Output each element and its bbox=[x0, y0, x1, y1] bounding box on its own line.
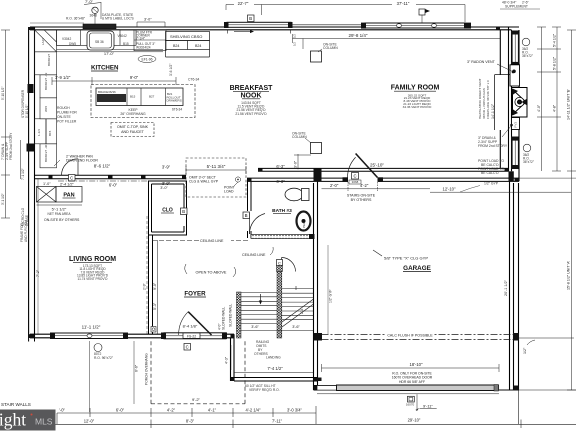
svg-text:3068: 3068 bbox=[352, 180, 359, 184]
svg-text:B15: B15 bbox=[123, 42, 129, 46]
svg-text:VERIFY REQ'D R.O.: VERIFY REQ'D R.O. bbox=[249, 388, 280, 392]
svg-text:B: B bbox=[245, 213, 248, 218]
svg-text:3648: 3648 bbox=[90, 13, 98, 17]
svg-text:5/8" TYPE "X" CLG GYP: 5/8" TYPE "X" CLG GYP bbox=[384, 256, 428, 261]
svg-text:8'-6 1/2": 8'-6 1/2" bbox=[94, 164, 111, 169]
cabinet tiny labels bbox=[62, 31, 155, 50]
svg-text:PLUMB FOR: PLUMB FOR bbox=[57, 111, 77, 115]
svg-text:18'-10": 18'-10" bbox=[410, 362, 424, 367]
svg-text:4'-3": 4'-3" bbox=[225, 356, 229, 364]
window label below bbox=[94, 344, 102, 352]
rough plumb note bbox=[57, 106, 77, 124]
dims under family wall bbox=[322, 188, 431, 190]
counter edge bbox=[57, 49, 164, 51]
svg-text:R.O. 96"x72": R.O. 96"x72" bbox=[94, 356, 114, 360]
garage west wall bbox=[313, 183, 315, 390]
right exterior wall (family room) bbox=[508, 27, 510, 171]
svg-text:21.56 VENT PROV'D: 21.56 VENT PROV'D bbox=[235, 112, 267, 116]
svg-text:EF1-96: EF1-96 bbox=[141, 58, 152, 62]
garage right wall bbox=[509, 180, 511, 391]
svg-text:FV3: FV3 bbox=[514, 122, 518, 128]
window W3 family room bbox=[365, 23, 465, 28]
svg-text:CEILING LINE: CEILING LINE bbox=[242, 253, 266, 257]
svg-text:OPEN TO ABOVE: OPEN TO ABOVE bbox=[196, 271, 227, 275]
16070 label bbox=[408, 396, 415, 402]
arrow under nook window bbox=[234, 31, 250, 33]
kitchen south wall bbox=[35, 174, 187, 176]
under stair door arc bbox=[282, 258, 296, 272]
svg-text:5'-11 3/4": 5'-11 3/4" bbox=[207, 164, 226, 169]
svg-text:BREAKFAST: BREAKFAST bbox=[230, 85, 274, 92]
svg-text:22'-7": 22'-7" bbox=[238, 1, 249, 6]
svg-text:2'-4": 2'-4" bbox=[300, 307, 304, 314]
svg-text:6'-3": 6'-3" bbox=[276, 164, 285, 169]
shelving unit bbox=[166, 32, 210, 58]
svg-text:29'-10": 29'-10" bbox=[408, 417, 421, 422]
svg-text:BDWF27: BDWF27 bbox=[47, 54, 51, 67]
svg-text:9'-0": 9'-0" bbox=[130, 75, 139, 80]
corner blocks bbox=[29, 27, 519, 390]
svg-text:C: C bbox=[278, 260, 281, 265]
heatilator rotated text bbox=[478, 79, 495, 119]
svg-text:B15: B15 bbox=[130, 95, 136, 99]
svg-text:7'-1/4": 7'-1/4" bbox=[136, 37, 145, 41]
svg-text:20'-1 1/2": 20'-1 1/2" bbox=[504, 279, 508, 296]
right wall window lower bbox=[512, 140, 519, 166]
svg-text:LOAD: LOAD bbox=[224, 190, 234, 194]
svg-text:3'-0": 3'-0" bbox=[160, 186, 168, 190]
svg-text:36"x72": 36"x72" bbox=[523, 160, 534, 164]
wall blocks on mid walls bbox=[49, 168, 520, 182]
svg-text:NET PAN AREA: NET PAN AREA bbox=[48, 212, 72, 216]
top right corner texts bbox=[502, 0, 530, 8]
kitchen top dim 3'-0 left bbox=[30, 22, 84, 24]
svg-text:BRAKE36/36: BRAKE36/36 bbox=[98, 90, 116, 94]
svg-text:FAMILY ROOM: FAMILY ROOM bbox=[391, 85, 440, 92]
svg-text:9'-2": 9'-2" bbox=[192, 397, 201, 402]
family room sliding door arc bbox=[348, 154, 378, 178]
svg-text:1-1/4: 1-1/4 bbox=[37, 129, 41, 136]
17'-0 dim bbox=[57, 51, 164, 53]
svg-text:PAN: PAN bbox=[63, 193, 74, 199]
svg-text:COLUMN: COLUMN bbox=[292, 135, 307, 139]
svg-text:C: C bbox=[353, 174, 356, 179]
svg-text:4'-0": 4'-0" bbox=[537, 104, 541, 112]
stair wall A hatched bbox=[237, 292, 242, 338]
svg-text:9'-0": 9'-0" bbox=[153, 282, 157, 290]
svg-text:1/2" GYP: 1/2" GYP bbox=[329, 289, 333, 303]
extension line below window bbox=[89, 341, 91, 412]
svg-text:FOYER: FOYER bbox=[184, 291, 206, 298]
right side bottom lines bbox=[499, 389, 576, 391]
svg-text:3" RADON VENT: 3" RADON VENT bbox=[467, 60, 496, 64]
window W2 breakfast nook bbox=[227, 22, 291, 27]
svg-text:2'-4 1/2": 2'-4 1/2" bbox=[60, 183, 75, 187]
point load notes bbox=[478, 159, 504, 175]
svg-text:BDWF27 -33: BDWF27 -33 bbox=[44, 72, 48, 90]
landing east wall bbox=[230, 338, 232, 381]
bath sink bbox=[297, 212, 311, 231]
front door assembly bbox=[164, 333, 226, 339]
svg-text:8'-3": 8'-3" bbox=[186, 418, 195, 423]
svg-text:PORCH OVERHANG: PORCH OVERHANG bbox=[145, 353, 149, 385]
kitchen island bbox=[91, 85, 195, 118]
svg-text:1'-0": 1'-0" bbox=[43, 182, 51, 186]
svg-text:3'-6": 3'-6" bbox=[251, 325, 259, 329]
radon vent chase bbox=[495, 65, 520, 130]
svg-text:7'-4 1/2": 7'-4 1/2" bbox=[267, 366, 283, 371]
fireplace U1 bbox=[512, 88, 528, 118]
svg-text:11'-1 1/2": 11'-1 1/2" bbox=[82, 325, 101, 330]
left exterior wall bbox=[28, 27, 30, 338]
svg-text:4'-2": 4'-2" bbox=[167, 407, 176, 412]
appliance block on left wall bbox=[27, 144, 35, 152]
svg-text:3'-9 1/2": 3'-9 1/2" bbox=[55, 75, 71, 80]
svg-text:3'-6": 3'-6" bbox=[292, 325, 300, 329]
svg-text:26" OVERHANG: 26" OVERHANG bbox=[120, 112, 146, 116]
svg-text:LANDING: LANDING bbox=[266, 356, 281, 360]
svg-text:ON-SITE BY OTHERS: ON-SITE BY OTHERS bbox=[44, 218, 80, 222]
calc flush lines bbox=[322, 334, 515, 336]
svg-text:25'-10": 25'-10" bbox=[370, 163, 384, 168]
omit c-top note bbox=[111, 123, 154, 137]
svg-text:B: B bbox=[182, 209, 185, 214]
down arrow bbox=[260, 294, 262, 303]
svg-text:'-0": '-0" bbox=[59, 407, 65, 412]
svg-text:FIREPLACE 36"x36 7/8" x 0: FIREPLACE 36"x36 7/8" x 0 bbox=[486, 80, 490, 119]
svg-text:OMIT C-TOP, SINK: OMIT C-TOP, SINK bbox=[117, 125, 149, 129]
svg-text:3'-1 1/2": 3'-1 1/2" bbox=[1, 193, 5, 205]
landing south wall bbox=[231, 377, 318, 379]
window label right lower bbox=[523, 144, 531, 152]
bath west wall bbox=[247, 178, 249, 211]
doorbell box bbox=[151, 327, 156, 333]
svg-text:SLOPED WALL: SLOPED WALL bbox=[222, 307, 226, 330]
svg-text:12'-10": 12'-10" bbox=[443, 186, 457, 191]
svg-text:FROM 2nd STORY: FROM 2nd STORY bbox=[9, 132, 13, 160]
top exterior wall bbox=[30, 26, 519, 28]
svg-text:B27: B27 bbox=[149, 95, 155, 99]
svg-text:3'-6 1/2": 3'-6 1/2" bbox=[169, 63, 173, 76]
svg-text:4'-2 1/4": 4'-2 1/4" bbox=[246, 407, 262, 412]
svg-text:7'-1 1/2": 7'-1 1/2" bbox=[21, 168, 25, 180]
foyer left dim hatch bbox=[157, 240, 159, 334]
svg-text:6'-3": 6'-3" bbox=[276, 179, 285, 184]
toilet bbox=[285, 188, 303, 201]
svg-text:LAZY: LAZY bbox=[41, 37, 45, 45]
living room east wall bbox=[148, 235, 150, 334]
svg-text:POT FILLER: POT FILLER bbox=[57, 120, 77, 124]
front wall living/foyer bbox=[30, 333, 234, 335]
door label C bbox=[69, 175, 76, 182]
svg-text:KITCHEN: KITCHEN bbox=[91, 65, 119, 72]
svg-text:3'-0": 3'-0" bbox=[294, 160, 298, 168]
svg-text:CEILING LINE: CEILING LINE bbox=[200, 239, 224, 243]
svg-text:SLOPED WALL: SLOPED WALL bbox=[229, 304, 233, 327]
svg-text:17'-0": 17'-0" bbox=[104, 51, 115, 56]
svg-text:DW5: DW5 bbox=[69, 42, 76, 46]
left cabinet column bbox=[35, 30, 57, 52]
window label right upper bbox=[522, 38, 530, 46]
svg-text:C: C bbox=[70, 176, 73, 181]
on-site column 1 bbox=[311, 51, 322, 62]
svg-text:CT6-34: CT6-34 bbox=[188, 78, 199, 82]
svg-text:12'-0": 12'-0" bbox=[84, 418, 95, 423]
window W1 kitchen sink window bbox=[83, 24, 116, 29]
treads left flight bbox=[241, 292, 277, 323]
bath south wall hatched bbox=[251, 235, 311, 239]
svg-text:4'-1": 4'-1" bbox=[208, 407, 217, 412]
svg-text:3'-9": 3'-9" bbox=[162, 165, 171, 170]
svg-text:BY OTHERS: BY OTHERS bbox=[351, 198, 372, 202]
lower chase bbox=[512, 118, 520, 130]
svg-text:ON-SITE: ON-SITE bbox=[57, 115, 71, 119]
svg-text:right: right bbox=[0, 410, 26, 430]
svg-text:36"x72": 36"x72" bbox=[522, 54, 533, 58]
svg-text:V3042: V3042 bbox=[118, 34, 127, 38]
treads right flight bbox=[282, 289, 314, 327]
garage front wall line bbox=[314, 385, 500, 387]
svg-text:GARAGE: GARAGE bbox=[403, 265, 431, 272]
svg-text:B24: B24 bbox=[173, 44, 179, 48]
family room south wall bbox=[258, 167, 509, 169]
svg-text:11.74 VENT PROV'D: 11.74 VENT PROV'D bbox=[78, 277, 109, 281]
svg-text:FS-22: FS-22 bbox=[187, 334, 196, 338]
svg-text:1/2: 1/2 bbox=[293, 42, 297, 46]
svg-text:CALC FLUSH IF POSSIBLE: CALC FLUSH IF POSSIBLE bbox=[387, 333, 433, 337]
svg-text:5'-10 1/2": 5'-10 1/2" bbox=[25, 105, 29, 118]
svg-text:6'-0": 6'-0" bbox=[116, 407, 125, 412]
clo walls bbox=[149, 181, 187, 235]
svg-text:MLS: MLS bbox=[35, 417, 53, 427]
door leaf bbox=[188, 312, 211, 335]
svg-text:3'-0": 3'-0" bbox=[144, 18, 152, 22]
svg-text:15'-8 1/2" UNIT 'A': 15'-8 1/2" UNIT 'A' bbox=[567, 260, 571, 290]
svg-text:BE CALC'D: BE CALC'D bbox=[481, 171, 499, 175]
foyer left dashed dim line bbox=[146, 216, 148, 334]
svg-text:ROUGH: ROUGH bbox=[57, 106, 70, 110]
svg-text:B: B bbox=[249, 16, 252, 21]
svg-text:W15: W15 bbox=[44, 106, 48, 113]
svg-text:W3024/24: W3024/24 bbox=[136, 46, 151, 50]
svg-text:9'-11": 9'-11" bbox=[423, 404, 433, 409]
svg-text:1/2" GYP: 1/2" GYP bbox=[484, 182, 499, 186]
svg-text:29'-8 1/4": 29'-8 1/4" bbox=[349, 33, 368, 38]
garage/bath north wall bbox=[247, 177, 348, 179]
living room window bbox=[54, 333, 125, 339]
upper run cabinets bbox=[57, 30, 81, 46]
svg-text:1/2": 1/2" bbox=[523, 347, 527, 354]
svg-text:B24: B24 bbox=[195, 44, 201, 48]
22'-7 / 37'-11 dim bbox=[226, 4, 465, 6]
svg-text:5'-8 1/2": 5'-8 1/2" bbox=[553, 56, 557, 70]
svg-text:SHELVING CBSO: SHELVING CBSO bbox=[170, 34, 202, 39]
svg-text:DRAIN 2ND FLOOR: DRAIN 2ND FLOOR bbox=[66, 159, 98, 163]
svg-text:16070: 16070 bbox=[406, 403, 415, 407]
right wall window upper bbox=[512, 34, 519, 63]
svg-text:STAIR WALLS: STAIR WALLS bbox=[1, 402, 31, 407]
svg-text:COLUMN: COLUMN bbox=[323, 46, 338, 50]
svg-text:6'-0": 6'-0" bbox=[109, 183, 118, 188]
svg-text:1/2: 1/2 bbox=[293, 34, 297, 38]
svg-text:CHASE: CHASE bbox=[25, 215, 29, 226]
landing notes bbox=[254, 340, 281, 360]
1/2 gyp rotated near garage west bbox=[327, 245, 329, 334]
flag symbol bbox=[419, 9, 425, 15]
stair wall B hatched bbox=[277, 272, 282, 339]
svg-text:3'-0 3/4": 3'-0 3/4" bbox=[287, 407, 303, 412]
porch width dim 6'-6" bbox=[133, 341, 135, 404]
svg-text:5'-10 1/2": 5'-10 1/2" bbox=[1, 87, 5, 100]
svg-text:14'-1 1/2": 14'-1 1/2" bbox=[491, 103, 495, 119]
svg-text:V3042: V3042 bbox=[62, 37, 71, 41]
svg-text:BDWF27 -30: BDWF27 -30 bbox=[44, 144, 48, 162]
svg-text:14'-11 1/2" UNIT 'B': 14'-11 1/2" UNIT 'B' bbox=[567, 89, 571, 120]
svg-text:SUPPLEMENT: SUPPLEMENT bbox=[505, 4, 528, 8]
dim 29'-8 1/4 under top wall bbox=[293, 38, 501, 40]
svg-text:3'-9": 3'-9" bbox=[162, 181, 171, 186]
svg-text:2'-9": 2'-9" bbox=[143, 282, 147, 290]
kitchen door arc at pantry hall bbox=[62, 159, 79, 176]
svg-text:FROM 2nd STORY: FROM 2nd STORY bbox=[478, 144, 508, 148]
svg-text:7'-11": 7'-11" bbox=[272, 418, 283, 423]
svg-text:C: C bbox=[186, 345, 189, 350]
pan bbox=[37, 187, 83, 203]
svg-text:AND FAUCET: AND FAUCET bbox=[121, 130, 145, 134]
svg-text:2'-0": 2'-0" bbox=[330, 183, 339, 188]
svg-text:R.O. 36"x48": R.O. 36"x48" bbox=[66, 16, 86, 20]
svg-text:6'-6": 6'-6" bbox=[135, 364, 139, 372]
svg-text:34.36 VENT PROVD: 34.36 VENT PROVD bbox=[403, 105, 432, 109]
svg-text:5'-4 1/2": 5'-4 1/2" bbox=[553, 33, 557, 47]
svg-text:6T6-34: 6T6-34 bbox=[172, 108, 182, 112]
svg-text:5'-3": 5'-3" bbox=[153, 302, 157, 310]
drain note bbox=[478, 136, 508, 148]
bath door arc bbox=[249, 213, 265, 234]
svg-text:4'-8": 4'-8" bbox=[553, 104, 557, 112]
svg-text:CLO: CLO bbox=[162, 208, 173, 214]
svg-text:8'-4 1/8": 8'-4 1/8" bbox=[183, 324, 198, 329]
kitchen sink bbox=[87, 31, 114, 50]
on-site column 2 bbox=[311, 143, 322, 154]
svg-text:PED: PED bbox=[302, 221, 306, 228]
svg-text:B15: B15 bbox=[48, 130, 52, 136]
svg-text:HDR 66 5/8" AFF: HDR 66 5/8" AFF bbox=[399, 380, 425, 384]
svg-text:CLG & WALL GYP: CLG & WALL GYP bbox=[189, 180, 219, 184]
svg-text:5'-1 1/2": 5'-1 1/2" bbox=[52, 207, 67, 212]
clo door label bbox=[181, 208, 188, 215]
svg-text:DRAWERS: DRAWERS bbox=[167, 99, 182, 103]
omit sect dashed box bbox=[186, 158, 246, 197]
svg-text:SB 36: SB 36 bbox=[95, 40, 104, 44]
svg-text:& MTS LABEL LOC'S: & MTS LABEL LOC'S bbox=[102, 16, 134, 20]
garage overhead door band bbox=[317, 386, 337, 391]
svg-text:NOOK: NOOK bbox=[241, 93, 262, 100]
ceiling line upper bbox=[152, 240, 248, 242]
svg-text:4'-2": 4'-2" bbox=[360, 183, 369, 188]
svg-text:37'-11": 37'-11" bbox=[397, 1, 410, 6]
island dims bbox=[52, 80, 176, 82]
